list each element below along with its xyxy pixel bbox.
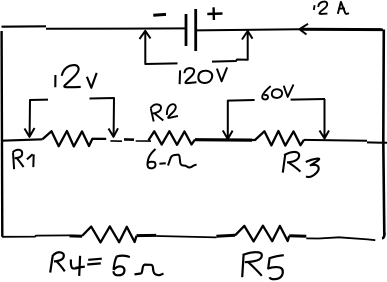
wire thick between R2 and R3 [195, 138, 252, 142]
voltage bracket 60V left (down arrow) [228, 100, 255, 139]
label "R5" [242, 252, 284, 279]
voltage bracket 60V right arrowhead [320, 131, 330, 139]
voltage bracket 120V left arrowhead [140, 31, 151, 39]
wire top-left segment [2, 25, 47, 28]
wire dash before R2 (thin) [136, 140, 151, 142]
wire between R4 and R5 [156, 236, 216, 237]
battery positive terminal label "+" horizontal [207, 12, 222, 15]
label "R3" [283, 152, 319, 177]
wire thick after R4 [137, 234, 157, 237]
label "R4 = 5 ohm" [50, 252, 163, 276]
voltage bracket 12V right (down arrow) [90, 98, 115, 136]
battery negative terminal label "-" [153, 13, 166, 17]
voltage bracket 12V left (down arrow) [30, 100, 48, 136]
wire dash between R1 and R2 (thick) [124, 138, 134, 141]
value label "120V" [180, 67, 228, 84]
wire left border [0, 31, 3, 237]
wire bottom-right [306, 237, 375, 240]
voltage bracket 12V left arrowhead [25, 128, 35, 137]
wire right border bottom hook [382, 233, 384, 239]
wire stub crossing right border [367, 141, 387, 143]
resistor R2 [149, 131, 196, 145]
resistor R4 [82, 226, 137, 242]
voltage bracket 120V right arrowhead [242, 31, 253, 40]
battery positive terminal label "+" vertical [212, 7, 215, 20]
wire top segment to battery negative plate [46, 27, 186, 29]
value label "12V" [55, 65, 96, 88]
wire top-right thick segment [300, 28, 383, 31]
wire thick before R5 [216, 234, 235, 238]
wire thick before R4 [70, 234, 83, 237]
voltage bracket 120V right arrow (up) [247, 31, 249, 61]
battery V1 negative plate [185, 14, 188, 46]
voltage bracket 60V right (down arrow) [324, 99, 326, 139]
value label "6 ohm" [147, 149, 196, 168]
voltage bracket 60V left arrowhead [223, 131, 233, 140]
voltage bracket 120V left arrow (up) [145, 31, 177, 64]
wire right border [383, 30, 384, 235]
current arrow head (pointing left) [299, 24, 308, 35]
wire from R3 to right border [304, 139, 367, 142]
label "R1" [13, 150, 34, 169]
voltage bracket 120V right horizontal [212, 60, 248, 62]
resistor R1 [42, 131, 106, 146]
wire middle-left from border to R1 [2, 139, 42, 140]
wire dash between R1 and R2 (thin) [110, 140, 122, 142]
label "R2" [151, 104, 178, 121]
voltage bracket 60V right horizontal [291, 98, 325, 101]
wire thick after R5 [289, 234, 306, 237]
value label "60V" [262, 85, 293, 100]
voltage bracket 12V right arrowhead [109, 128, 119, 137]
wire bottom-left [2, 235, 70, 236]
resistor R3 [252, 131, 304, 146]
current label "12 A" [314, 2, 349, 14]
wire from battery positive to current arrow [196, 29, 299, 30]
battery V1 positive plate [194, 9, 197, 51]
resistor R5 [235, 226, 289, 242]
